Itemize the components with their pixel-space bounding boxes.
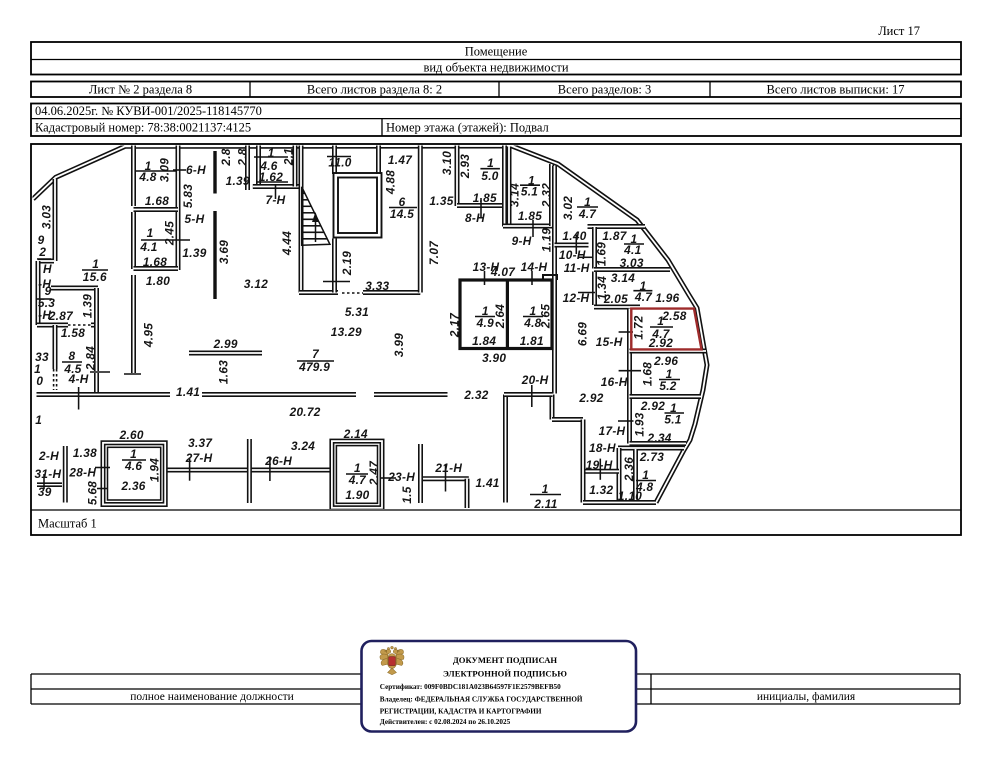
svg-text:1.94: 1.94 [148,458,162,482]
svg-text:1.87: 1.87 [602,229,627,243]
svg-text:5.1: 5.1 [521,185,538,199]
svg-text:17-Н: 17-Н [599,424,626,438]
svg-text:04.06.2025г. № КУВИ-001/2025-1: 04.06.2025г. № КУВИ-001/2025-118145770 [35,104,262,118]
svg-text:ЭЛЕКТРОННОЙ ПОДПИСЬЮ: ЭЛЕКТРОННОЙ ПОДПИСЬЮ [443,669,567,679]
svg-text:1.68: 1.68 [143,255,167,269]
svg-text:2.34: 2.34 [647,431,672,445]
svg-text:9-Н: 9-Н [512,234,532,248]
svg-text:ДОКУМЕНТ ПОДПИСАН: ДОКУМЕНТ ПОДПИСАН [453,655,558,665]
svg-text:1.85: 1.85 [473,191,497,205]
svg-text:1: 1 [35,413,42,427]
svg-text:2-Н: 2-Н [38,449,59,463]
svg-text:2.65: 2.65 [539,304,553,329]
svg-text:4.07: 4.07 [490,265,516,279]
svg-text:2.32: 2.32 [540,183,554,208]
svg-text:Лист 17: Лист 17 [878,24,920,38]
svg-text:1.41: 1.41 [476,476,500,490]
svg-text:3.14: 3.14 [611,271,635,285]
svg-text:4.44: 4.44 [280,231,294,256]
svg-text:Масштаб 1: Масштаб 1 [38,517,97,531]
svg-text:14.5: 14.5 [390,207,414,221]
svg-text:1.85: 1.85 [518,209,542,223]
svg-text:31-Н: 31-Н [35,467,62,481]
svg-text:4.9: 4.9 [476,316,494,330]
svg-text:1.47: 1.47 [388,153,413,167]
svg-text:4.8: 4.8 [138,170,156,184]
svg-text:26-Н: 26-Н [264,454,292,468]
svg-text:3.69: 3.69 [217,240,231,264]
svg-text:5.68: 5.68 [85,481,99,505]
svg-text:7.07: 7.07 [427,240,441,265]
svg-text:1.69: 1.69 [595,242,609,266]
svg-text:3.33: 3.33 [365,279,389,293]
svg-text:1.5: 1.5 [400,486,414,503]
svg-text:2.47: 2.47 [367,460,381,486]
svg-text:4.88: 4.88 [384,170,398,195]
svg-text:5.83: 5.83 [181,184,195,208]
svg-text:1: 1 [147,226,154,240]
svg-text:2.19: 2.19 [340,251,354,276]
svg-text:2.11: 2.11 [533,497,557,511]
svg-text:27-Н: 27-Н [185,451,213,465]
svg-text:8: 8 [68,349,75,363]
svg-text:3.09: 3.09 [158,158,172,182]
svg-text:1.93: 1.93 [633,412,647,436]
svg-text:1.80: 1.80 [146,274,170,288]
svg-text:3.99: 3.99 [392,333,406,357]
svg-text:3.90: 3.90 [482,351,506,365]
svg-text:РЕГИСТРАЦИИ, КАДАСТРА И КАРТОГ: РЕГИСТРАЦИИ, КАДАСТРА И КАРТОГРАФИИ [380,708,542,716]
svg-text:2.8: 2.8 [219,148,233,166]
svg-text:4.6: 4.6 [124,459,142,473]
svg-text:12-Н: 12-Н [563,291,590,305]
svg-text:1: 1 [92,257,99,271]
svg-text:2.36: 2.36 [121,479,146,493]
svg-text:1.58: 1.58 [61,326,85,340]
svg-text:1.84: 1.84 [472,334,496,348]
svg-text:2.92: 2.92 [640,399,665,413]
svg-text:2.96: 2.96 [653,354,678,368]
svg-text:Владелец: ФЕДЕРАЛЬНАЯ СЛУЖБА Г: Владелец: ФЕДЕРАЛЬНАЯ СЛУЖБА ГОСУДАРСТВЕ… [380,695,583,704]
svg-text:19-Н: 19-Н [586,458,613,472]
svg-text:5.2: 5.2 [659,379,676,393]
svg-text:1.39: 1.39 [182,246,206,260]
svg-text:3.24: 3.24 [291,439,315,453]
svg-text:1: 1 [657,314,664,328]
svg-text:3.02: 3.02 [561,196,575,220]
svg-text:2.8: 2.8 [236,148,250,166]
svg-text:2.60: 2.60 [119,428,144,442]
svg-text:2.64: 2.64 [493,304,507,329]
svg-text:3.37: 3.37 [188,436,213,450]
svg-text:1: 1 [34,362,41,376]
svg-text:4.1: 4.1 [139,240,157,254]
svg-text:1.63: 1.63 [217,360,231,384]
svg-text:Всего листов раздела 8: 2: Всего листов раздела 8: 2 [307,83,442,97]
svg-text:2.99: 2.99 [213,337,238,351]
svg-text:1.41: 1.41 [176,385,200,399]
svg-text:10-Н: 10-Н [559,248,586,262]
svg-text:14-Н: 14-Н [521,260,548,274]
svg-text:3.10: 3.10 [440,151,454,175]
svg-text:2.32: 2.32 [463,388,488,402]
svg-text:1.96: 1.96 [655,291,679,305]
svg-text:1.19: 1.19 [539,228,553,252]
svg-text:Помещение: Помещение [465,45,528,59]
svg-text:2.93: 2.93 [458,154,472,179]
svg-text:Сертификат: 009F0BDC181A023B64: Сертификат: 009F0BDC181A023B64597F1E2579… [380,683,561,691]
svg-text:1: 1 [487,156,494,170]
svg-text:2.87: 2.87 [48,309,74,323]
svg-text:2.17: 2.17 [447,312,461,338]
svg-text:7: 7 [312,347,320,361]
svg-text:11.0: 11.0 [328,156,351,170]
svg-text:2.73: 2.73 [639,450,664,464]
svg-text:1: 1 [268,146,275,160]
svg-text:5-Н: 5-Н [185,212,205,226]
svg-text:4.95: 4.95 [141,323,155,348]
svg-text:2.05: 2.05 [603,292,628,306]
svg-text:3.12: 3.12 [244,277,268,291]
svg-text:Н: Н [43,262,52,276]
svg-text:Всего разделов: 3: Всего разделов: 3 [558,83,651,97]
svg-text:1.62: 1.62 [259,170,283,184]
svg-text:6.69: 6.69 [576,322,590,346]
svg-text:15.6: 15.6 [83,270,107,284]
svg-text:2.92: 2.92 [648,336,673,350]
svg-text:4-Н: 4-Н [68,372,89,386]
svg-text:13.29: 13.29 [331,325,362,339]
svg-text:2.45: 2.45 [163,221,177,246]
svg-text:Лист № 2 раздела 8: Лист № 2 раздела 8 [89,83,192,97]
svg-text:6-Н: 6-Н [186,163,206,177]
svg-text:1.40: 1.40 [562,229,586,243]
svg-text:Кадастровый номер: 78:38:00211: Кадастровый номер: 78:38:0021137:4125 [35,121,251,135]
svg-text:1.10: 1.10 [618,489,642,503]
svg-text:2: 2 [38,245,46,259]
svg-text:1.81: 1.81 [520,334,544,348]
svg-text:2.58: 2.58 [661,309,686,323]
svg-text:Всего листов выписки: 17: Всего листов выписки: 17 [767,83,905,97]
svg-text:39: 39 [38,485,52,499]
svg-text:5.1: 5.1 [664,413,681,427]
svg-text:Номер этажа (этажей): Подвал: Номер этажа (этажей): Подвал [386,121,549,135]
svg-text:15-Н: 15-Н [596,335,623,349]
svg-text:21-Н: 21-Н [434,461,462,475]
svg-text:1.68: 1.68 [145,194,169,208]
svg-text:28-Н: 28-Н [68,466,96,480]
svg-text:4.7: 4.7 [578,207,597,221]
svg-text:0: 0 [36,374,43,388]
svg-text:7-Н: 7-Н [266,193,286,207]
svg-text:11-Н: 11-Н [564,261,590,275]
svg-text:23-Н: 23-Н [387,470,415,484]
svg-text:4.7: 4.7 [348,473,367,487]
svg-text:18-Н: 18-Н [589,441,616,455]
svg-text:5.0: 5.0 [481,169,498,183]
svg-text:1.35: 1.35 [429,194,453,208]
svg-text:1: 1 [542,482,549,496]
svg-text:4.7: 4.7 [634,290,653,304]
svg-text:1.38: 1.38 [73,446,97,460]
svg-text:1.68: 1.68 [640,362,654,386]
svg-text:3.03: 3.03 [620,256,644,270]
svg-text:полное наименование должности: полное наименование должности [130,691,294,703]
svg-text:2.14: 2.14 [343,427,368,441]
svg-text:2.1: 2.1 [282,148,296,166]
svg-text:1.32: 1.32 [589,483,613,497]
svg-text:5.31: 5.31 [345,305,369,319]
svg-text:инициалы, фамилия: инициалы, фамилия [757,691,856,703]
svg-text:4.1: 4.1 [623,243,641,257]
svg-text:1.72: 1.72 [632,315,646,339]
svg-text:2.84: 2.84 [84,346,98,371]
svg-text:Действителен: с 02.08.2024 по: Действителен: с 02.08.2024 по 26.10.2025 [380,718,511,726]
svg-text:вид объекта недвижимости: вид объекта недвижимости [423,61,568,75]
svg-text:2.36: 2.36 [622,457,636,482]
svg-text:8-Н: 8-Н [465,211,485,225]
svg-text:2.92: 2.92 [578,391,603,405]
svg-text:3.14: 3.14 [508,183,522,207]
svg-text:16-Н: 16-Н [601,375,628,389]
svg-text:1.39: 1.39 [226,174,250,188]
svg-text:1.39: 1.39 [80,294,94,318]
svg-text:3.03: 3.03 [40,205,54,229]
svg-text:20-Н: 20-Н [521,373,549,387]
svg-text:20.72: 20.72 [289,405,321,419]
svg-text:479.9: 479.9 [298,360,330,374]
svg-text:1.90: 1.90 [345,488,369,502]
